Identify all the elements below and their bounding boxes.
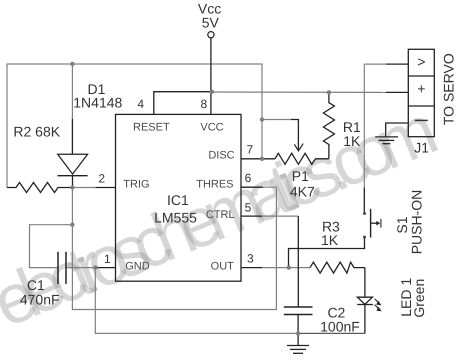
svg-text:1K: 1K	[343, 133, 361, 149]
node wiper jog	[260, 117, 264, 121]
wire CTRL to C2	[297, 216, 299, 307]
wire pin 5 stub	[241, 215, 262, 217]
node DISC	[260, 157, 264, 161]
wire TRIG net gray	[72, 187, 95, 189]
resistor R3	[310, 262, 365, 273]
svg-text:LM555: LM555	[154, 210, 197, 226]
resistor R2	[7, 183, 72, 193]
svg-text:J1: J1	[414, 140, 429, 156]
wire S1 to OUT junction	[289, 238, 365, 268]
wire Vcc drop pin 8	[210, 38, 212, 115]
node R1 top	[327, 90, 331, 94]
svg-text:VCC: VCC	[200, 122, 223, 134]
potentiometer P1	[275, 153, 329, 164]
wire THRES-TRIG tie	[72, 187, 276, 309]
svg-text:TO SERVO: TO SERVO	[440, 53, 456, 125]
P1 wiper arrow	[294, 143, 303, 151]
LED 1	[357, 297, 382, 333]
wire R3 to LED	[364, 268, 366, 298]
svg-text:+: +	[417, 81, 425, 97]
node OUT junction	[287, 265, 291, 269]
resistor R1	[323, 92, 334, 158]
wire CTRL gray	[262, 215, 298, 217]
Vcc terminal	[208, 32, 214, 38]
svg-text:R2 68K: R2 68K	[13, 124, 60, 140]
node C1 branch	[70, 223, 74, 227]
node pin8 Vcc	[210, 90, 214, 94]
wire C1 branch	[30, 225, 73, 268]
svg-text:1N4148: 1N4148	[73, 95, 122, 111]
wire OUT gray	[262, 267, 310, 269]
node TRIG junction	[70, 185, 74, 189]
svg-text:>: >	[417, 54, 425, 70]
svg-text:4K7: 4K7	[290, 184, 315, 200]
svg-text:DISC: DISC	[208, 149, 234, 161]
svg-text:6: 6	[245, 171, 252, 185]
capacitor C1	[58, 252, 66, 284]
svg-text:8: 8	[200, 97, 207, 111]
node GND junction	[93, 265, 97, 269]
svg-text:RESET: RESET	[133, 122, 170, 134]
J1 pin minus symbol	[415, 119, 428, 121]
svg-text:Green: Green	[411, 279, 427, 318]
svg-text:IC1: IC1	[167, 192, 189, 208]
svg-text:100nF: 100nF	[320, 318, 360, 334]
capacitor C2	[284, 307, 313, 333]
connector J1 box	[408, 49, 434, 136]
svg-text:S1: S1	[394, 216, 410, 233]
svg-text:PUSH-ON: PUSH-ON	[409, 190, 425, 255]
svg-text:4: 4	[137, 97, 144, 111]
svg-text:3: 3	[247, 252, 254, 266]
wire ground rail right	[298, 332, 365, 334]
svg-text:7: 7	[246, 143, 253, 157]
svg-text:470nF: 470nF	[20, 292, 60, 308]
wire Vcc rail to J1	[212, 91, 386, 93]
wire pin 3 stub	[241, 267, 262, 269]
svg-text:1K: 1K	[321, 232, 339, 248]
ground main	[287, 333, 309, 353]
svg-text:TRIG: TRIG	[123, 179, 149, 191]
svg-text:OUT: OUT	[211, 260, 235, 272]
wire pin 7 stub	[241, 158, 275, 160]
svg-text:1: 1	[104, 252, 111, 266]
svg-text:THRES: THRES	[196, 179, 233, 191]
wire pin 2 stub	[96, 187, 116, 189]
wire top-left horizontal net	[7, 64, 262, 188]
node D1 top	[70, 62, 74, 66]
svg-text:CTRL: CTRL	[206, 209, 235, 221]
svg-text:2: 2	[98, 172, 105, 186]
wire pin 1 stub	[95, 267, 115, 269]
ground J1	[375, 123, 408, 144]
wire wiper jog	[262, 119, 291, 121]
svg-text:P1: P1	[292, 168, 309, 184]
wire pin 6 stub	[241, 186, 263, 188]
svg-text:5: 5	[245, 201, 252, 215]
svg-text:5V: 5V	[202, 14, 220, 30]
diode D1	[58, 64, 88, 188]
switch S1	[363, 209, 381, 239]
wire pin4-pin8 tie	[154, 92, 212, 115]
wire servo signal	[364, 63, 386, 65]
svg-text:GND: GND	[125, 260, 150, 272]
IC U1 LM555 box	[116, 114, 242, 281]
wire ground rail	[95, 268, 298, 334]
wire C1 to GND junction	[66, 267, 95, 269]
wire S1 upper	[363, 64, 365, 187]
node C2 ground	[296, 331, 300, 335]
